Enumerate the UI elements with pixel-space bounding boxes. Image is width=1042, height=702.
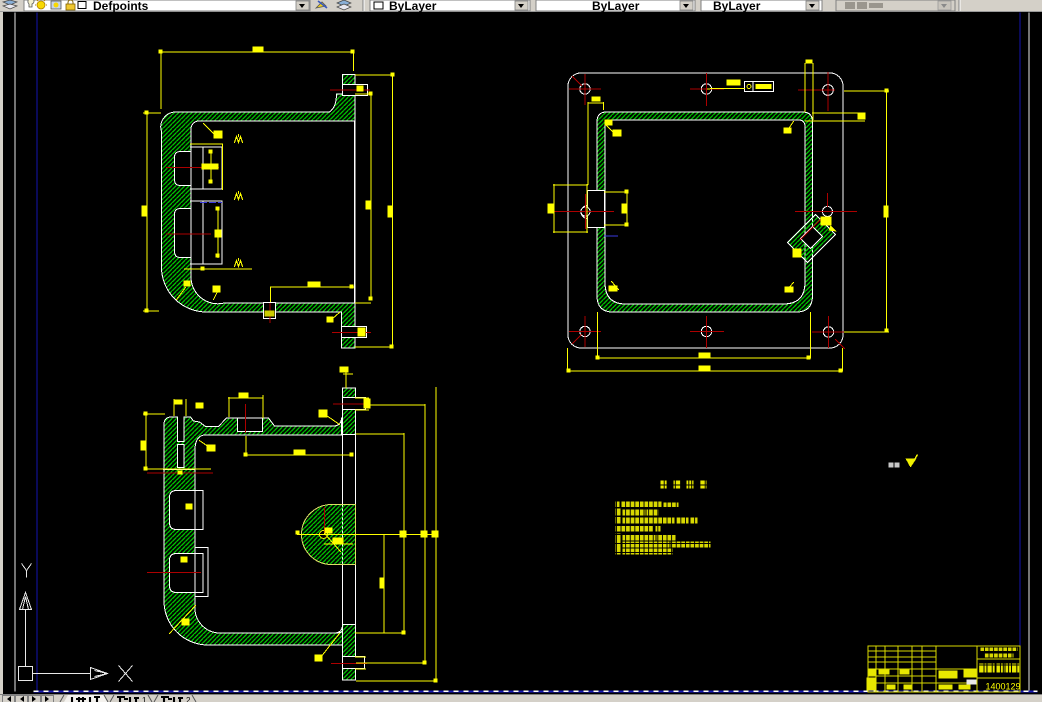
view3 lug lower dim line xyxy=(145,468,210,470)
paper edge white line left xyxy=(14,12,16,691)
tab nav buttons xyxy=(3,696,54,702)
view1 boss B2 centerline xyxy=(166,233,210,235)
view2 diagonal boss marks xyxy=(820,216,831,225)
UCS Y axis arrowhead xyxy=(19,592,31,609)
view2 diagonal boss inner hole xyxy=(800,226,822,248)
toolbar background xyxy=(0,0,1042,11)
view1 boss B2 text xyxy=(214,229,221,237)
view2 right overall dimension xyxy=(844,90,888,332)
view3 bottom corner R leader xyxy=(169,605,195,633)
view1 bottom flange thread text xyxy=(357,327,365,336)
view1 drain hole centerline xyxy=(269,303,271,322)
note line 1 xyxy=(615,501,619,507)
view3 flange corner R leader xyxy=(326,415,339,424)
view3 main wall section hatched xyxy=(164,417,343,645)
view3 bearing red tick xyxy=(305,533,316,535)
view3 pocket P1 mark xyxy=(185,503,192,509)
view1 top width dimension xyxy=(161,52,353,108)
linetype combo xyxy=(536,0,695,11)
view3 top flange small dim xyxy=(343,372,352,387)
note line 3b xyxy=(615,525,653,531)
view3 right horizontal ticks xyxy=(355,405,435,681)
sun icon xyxy=(37,1,45,9)
view2 left side boss xyxy=(587,190,604,227)
view1 bottom flange hole centerline xyxy=(332,331,370,333)
view3 bearing center hole xyxy=(319,530,327,538)
view1 hatched wall section xyxy=(161,74,355,348)
UCS X label xyxy=(118,665,132,681)
view2 bolt holes with red crosshairs xyxy=(580,84,834,337)
view2 left boss right dim xyxy=(604,191,627,225)
view3 bottom flange bolt hole xyxy=(342,656,364,668)
view2 bottom outer dimension xyxy=(567,348,842,371)
view1 boss B1 outline xyxy=(190,147,222,189)
combo dropdown button xyxy=(296,1,309,10)
tab label strokes (chinese tops cut) xyxy=(72,697,183,702)
view3 wall thickness leader xyxy=(199,440,209,447)
make layer current button xyxy=(316,2,326,8)
lineweight combo xyxy=(701,0,822,11)
drawing frame blue line right xyxy=(1019,12,1021,691)
view3 right flange top hatched xyxy=(342,388,355,435)
view2 diagonal boss leader arrow xyxy=(828,225,836,231)
college name line1 xyxy=(980,647,1017,651)
view1 top flange leader mark xyxy=(356,85,363,91)
layer previous button xyxy=(337,0,351,6)
view3 bottom flange R leader xyxy=(320,633,339,657)
viewport freeze icon xyxy=(51,1,61,9)
tab edges slashes xyxy=(60,695,196,702)
plot style combo disabled xyxy=(836,0,955,11)
note line 6 xyxy=(615,547,620,554)
view2 left boss hole semicircle xyxy=(581,205,588,218)
view3 pocket P2 outline xyxy=(169,553,203,592)
view2 housing wall ring hatched xyxy=(597,112,813,312)
view3 bearing boss stadium xyxy=(301,504,355,564)
view1 boss B2 outline xyxy=(190,201,222,264)
view2 bottom inner dimension xyxy=(597,312,810,358)
view1 top dim text xyxy=(252,46,263,51)
UCS Y label xyxy=(21,563,31,577)
top layer toolbar xyxy=(0,0,1042,12)
layers dialog button icon xyxy=(3,0,17,5)
view2 right top dim pair xyxy=(805,113,864,121)
view3 pocket P1 outline xyxy=(169,490,203,529)
view3 top flange bolt hole xyxy=(342,397,365,409)
view3 dim texts xyxy=(174,399,182,404)
padlock icon xyxy=(66,4,75,10)
dim tick marks xyxy=(158,49,162,53)
view1 left height dimension xyxy=(143,112,160,311)
view3 bearing hole centerline xyxy=(323,507,325,533)
view3 boss hole dim xyxy=(228,395,262,417)
diagonal boss centerline xyxy=(800,219,820,239)
view1 boss B2 blue hidden line xyxy=(200,201,221,203)
part name 变速器箱体 xyxy=(978,663,986,672)
layer combo box xyxy=(24,0,310,11)
view3 right dim columns xyxy=(384,387,436,680)
view1 corner R leader bottom-left xyxy=(176,287,185,299)
view3 left height dim xyxy=(143,413,164,468)
drawing frame bottom blue dashed line xyxy=(33,690,1037,692)
UCS Y axis line xyxy=(24,609,26,666)
view3 inner width dim xyxy=(245,436,352,455)
view1 bottom flange bolt hole xyxy=(341,326,366,337)
view1 boss B2 dim line xyxy=(217,208,219,257)
tech requirements title 技术要求 xyxy=(660,480,706,488)
view2 R leaders in corners xyxy=(606,125,612,131)
paper edge white line right xyxy=(1028,12,1030,690)
drawing frame blue line left xyxy=(36,12,38,691)
view3 pocket P2 centerline xyxy=(147,571,200,573)
bottom tab bar xyxy=(0,694,1042,702)
view3 pocket P2 counterbore rect xyxy=(195,547,208,596)
view1 bottom flange R leader xyxy=(331,312,339,319)
note line 3 xyxy=(615,516,620,523)
color combo xyxy=(370,0,530,11)
view2 outer flange plate rounded rect xyxy=(568,73,843,348)
view1 boss B1 dim box xyxy=(190,144,222,190)
title block yellow text blobs xyxy=(866,647,1019,690)
view3 bottom flange hole centerline xyxy=(331,662,366,664)
view1 drain plug hole xyxy=(263,302,275,318)
separator xyxy=(362,0,364,11)
surface finish note 其余 top right xyxy=(888,462,893,467)
layer color swatch xyxy=(78,2,86,9)
view1 right overall height dimension xyxy=(355,75,392,347)
title block grid xyxy=(868,646,1020,692)
view3 boss hole centerline xyxy=(244,404,246,432)
view1 pocket depth dimension xyxy=(270,287,353,302)
college name line2 xyxy=(984,653,1013,657)
UCS X arrowhead xyxy=(90,667,107,679)
svg-text:2: 2 xyxy=(186,696,191,702)
view3 flange face lines xyxy=(342,388,355,680)
view3 hole ext lines xyxy=(355,398,368,669)
view1 boss B2 lower dimension xyxy=(184,268,251,270)
view1 boss B1 centerline xyxy=(166,166,218,168)
view3 bearing dims xyxy=(297,534,436,544)
svg-text:1400129: 1400129 xyxy=(985,681,1020,691)
view1 roughness symbols xyxy=(234,134,242,142)
view2 diagonal oil boss xyxy=(787,214,835,262)
view1 wall thickness leader xyxy=(203,123,216,136)
svg-text:1: 1 xyxy=(142,696,147,702)
note line 5 xyxy=(615,540,620,547)
view3 bearing leader xyxy=(324,533,340,551)
model tab white xyxy=(64,695,108,702)
view1 second R leader xyxy=(213,291,217,299)
view1 left dim text xyxy=(141,205,146,216)
view2 top wall thickness dim xyxy=(805,63,813,119)
view1 inner height dimension xyxy=(355,93,371,303)
view3 top flange hole centerline xyxy=(333,403,368,405)
view2 left top dim xyxy=(588,102,604,184)
view3 bottom wall inner fix xyxy=(334,630,342,645)
view1 boss B1 text xyxy=(201,163,218,169)
ticks xyxy=(177,470,182,474)
view1 pocket depth text xyxy=(307,281,320,286)
view1 top flange bolt hole xyxy=(342,84,367,95)
UCS X axis line xyxy=(32,672,90,674)
view3 lug hole centerline red xyxy=(147,472,212,474)
view1 drain hole thread text xyxy=(264,310,274,316)
note line 4 xyxy=(615,533,620,540)
view3 lug bottom face line xyxy=(163,468,194,470)
view2 GDT feature frame xyxy=(744,81,773,91)
view1 right dim text xyxy=(387,205,392,217)
view2 left boss dim box xyxy=(553,184,587,232)
view3 pocket P2 mark xyxy=(180,556,187,562)
bulb icon xyxy=(28,0,34,7)
view2 GDT leader xyxy=(707,87,744,90)
separator right xyxy=(958,0,960,11)
tab bar background xyxy=(0,694,1042,702)
UCS origin box xyxy=(18,666,32,680)
view1 top flange hole centerline xyxy=(330,89,369,91)
view3 right flange bottom hatched xyxy=(342,624,355,680)
view2 dim texts and ticks xyxy=(883,205,888,217)
view3 lug slot dim xyxy=(174,399,186,415)
scale 1:1 white text xyxy=(966,679,976,684)
note line 2 xyxy=(615,508,620,515)
view1 inner dim text xyxy=(365,200,370,209)
